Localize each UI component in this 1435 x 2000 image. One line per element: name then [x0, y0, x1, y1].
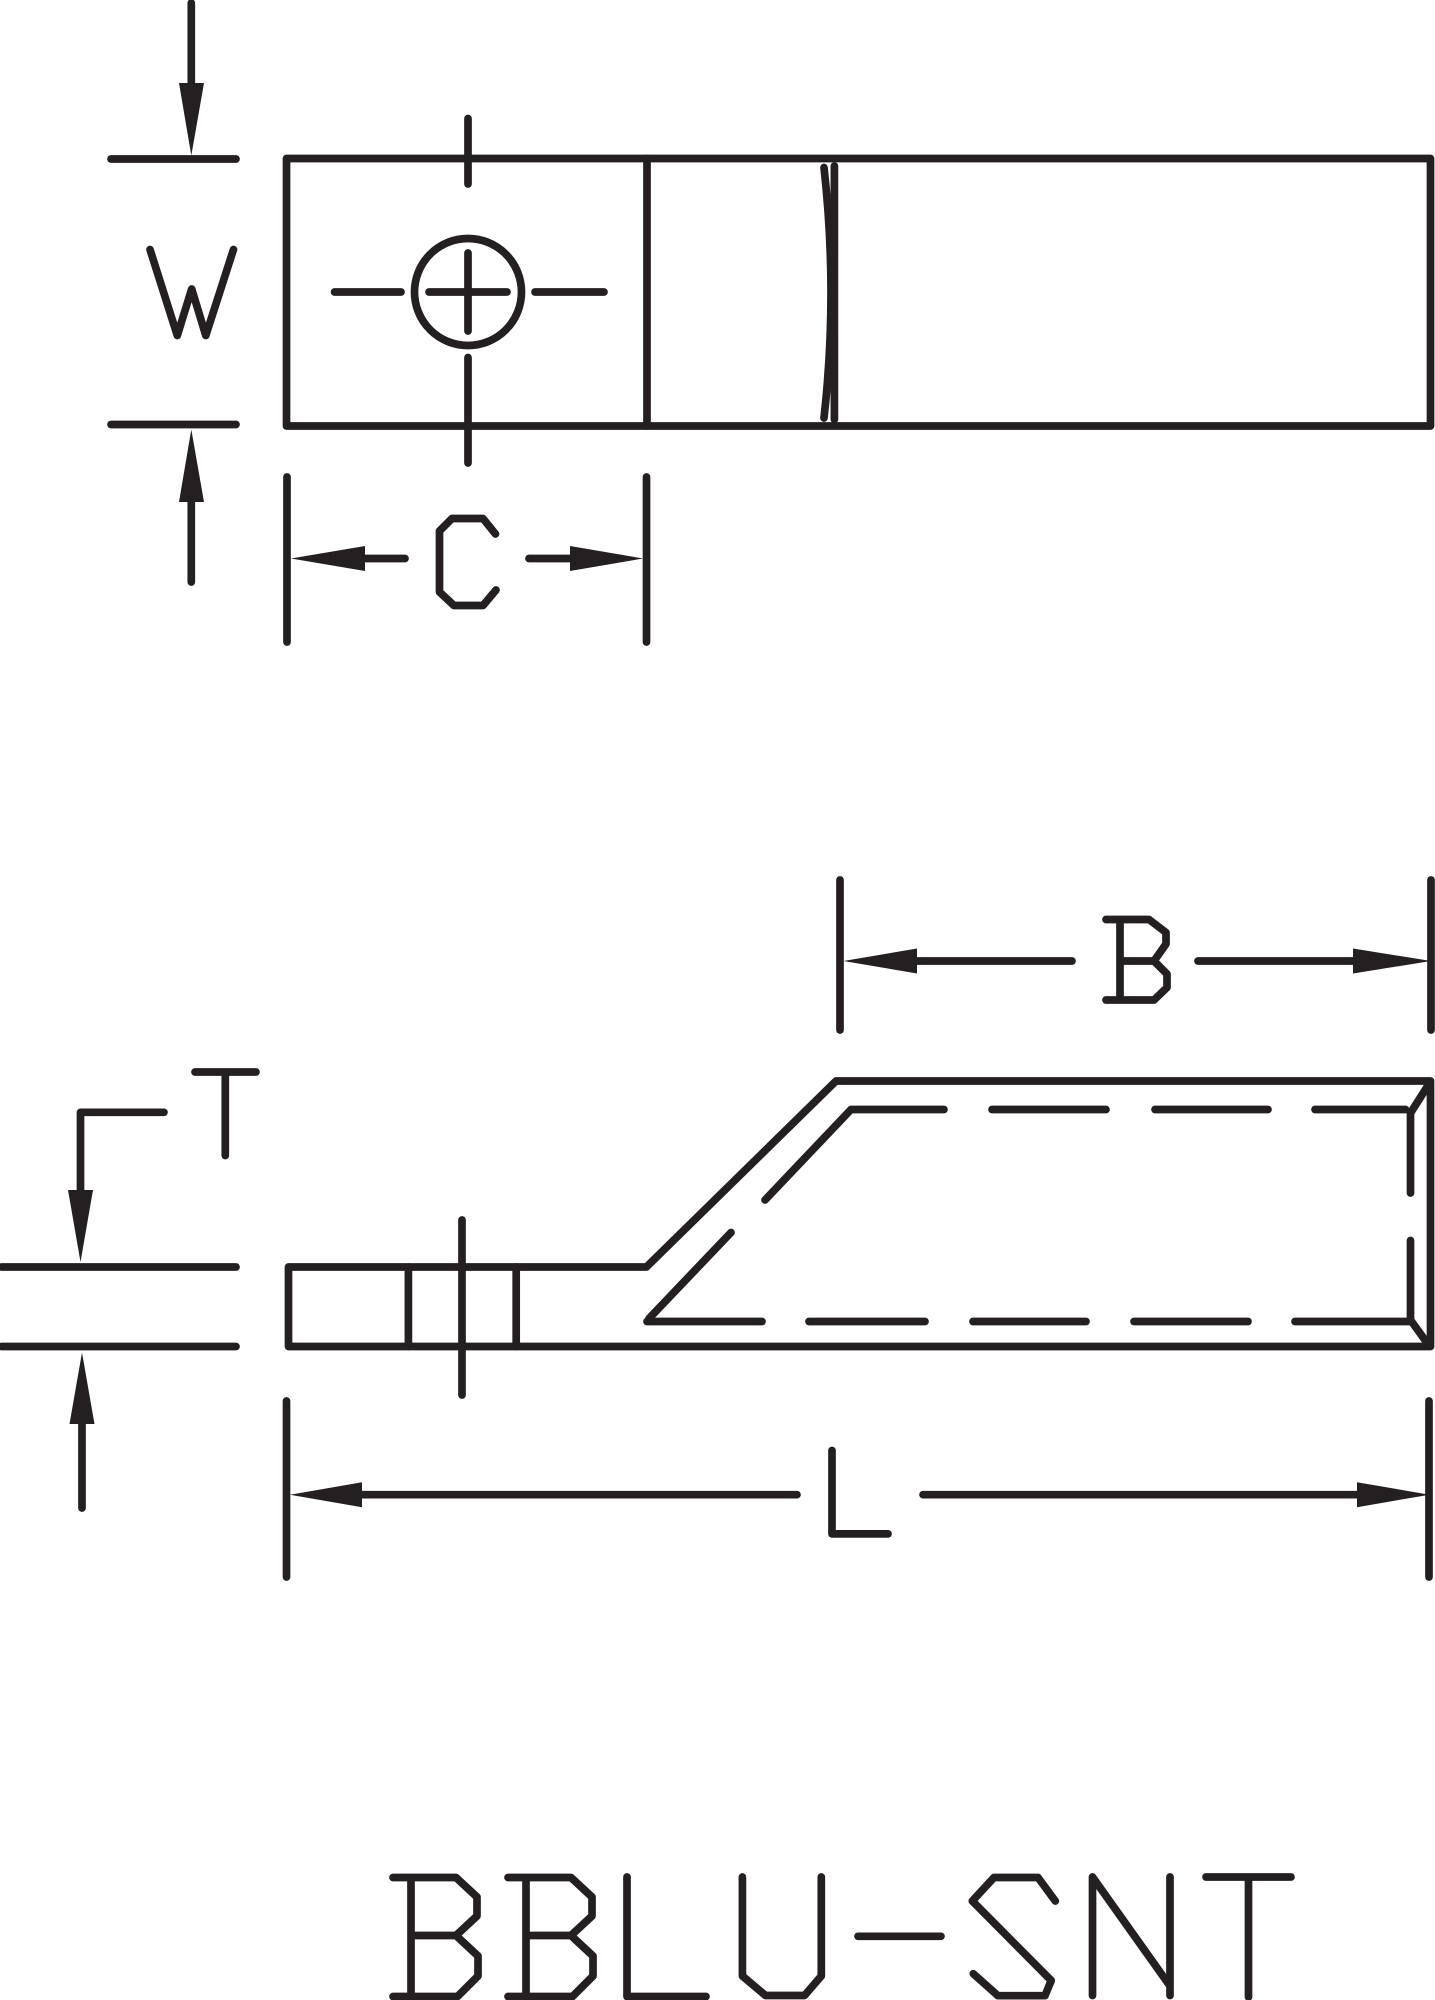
part number text: letter L [627, 1877, 706, 1997]
dimension L: right extension line [1425, 1401, 1433, 1577]
side view: bore hidden top line dash 2 [992, 1106, 1106, 1114]
side view: bore hidden bottom line dash 4 [1134, 1318, 1248, 1326]
side view: bolt hole centerline [458, 1220, 466, 1395]
dimension B: letter B [1106, 920, 1167, 1001]
part number text: letter T [1206, 1877, 1291, 1997]
side view: bore hidden top line dash 4 [1315, 1106, 1406, 1114]
dimension C: right extension line [643, 477, 651, 642]
top view: vertical centerline lower dash [464, 358, 472, 464]
dimension L: left extension line [283, 1401, 291, 1577]
side view: tongue division line 1 [405, 1267, 413, 1347]
top view: vertical centerline upper dash [464, 119, 472, 185]
dimension T: lower extension line [2, 1263, 237, 1271]
side view: lug profile outline [289, 1081, 1431, 1347]
dimension W: upper arrowhead [179, 83, 204, 156]
dimension B: right arrowhead [1353, 949, 1431, 974]
dimension W: lower arrowhead [179, 430, 204, 503]
dimension B: left extension line [836, 880, 844, 1030]
dimension W: lower tick [111, 421, 236, 429]
dimension T: leader arrowhead [68, 1190, 93, 1262]
side view: tongue division line 2 [512, 1267, 520, 1347]
dimension B: left arrowhead [844, 949, 918, 974]
dimension L: right arrowhead [1357, 1482, 1430, 1507]
dimension T: bottom arrow line [78, 1424, 86, 1508]
top view: bolt hole circle [415, 239, 522, 346]
dimension W: lower arrow line [187, 502, 195, 582]
dimension L: left arrow tail [360, 1491, 797, 1499]
dimension T: letter T [195, 1072, 256, 1156]
dimension C: right arrowhead [570, 546, 643, 571]
dimension B: right arrow tail [1198, 957, 1355, 965]
side view: barrel mouth top chamfer [1411, 1086, 1429, 1114]
part number text: letter U [742, 1877, 821, 1996]
dimension L: left arrowhead [290, 1482, 362, 1507]
top view: hole center cross vertical [464, 253, 472, 331]
dimension T: bottom arrowhead [70, 1353, 95, 1425]
part number text: letter N [1093, 1877, 1171, 1996]
side view: bore end hidden vertical dash 1 [1407, 1113, 1415, 1193]
top view: hole center cross horizontal [429, 288, 507, 296]
dimension L: right arrow tail [923, 1491, 1359, 1499]
top view: horizontal centerline left dash [335, 288, 402, 296]
side view: bore hidden bottom line dash 5 [1295, 1318, 1409, 1326]
dimension C: left arrowhead [291, 546, 365, 571]
dimension C: left arrow tail [363, 555, 405, 563]
side view: bore end hidden vertical dash 2 [1407, 1241, 1415, 1321]
part number text: letter S [972, 1878, 1055, 1996]
dimension B: left arrow tail [915, 957, 1072, 965]
part number text: letter B2 [508, 1878, 593, 1997]
dimension C: left extension line [283, 477, 291, 642]
top view: crimp witness straight line [831, 166, 839, 420]
dimension C: letter C [440, 519, 497, 606]
dimension W: upper tick [111, 155, 236, 163]
dimension L: letter L [832, 1451, 888, 1534]
top view: crimp witness arc [824, 168, 831, 419]
side view: bore hidden bottom line dash 2 [809, 1318, 925, 1326]
dimension W: letter W [150, 250, 234, 336]
top view: horizontal centerline right dash [535, 288, 604, 296]
dimension T: lower extension line 2 [2, 1343, 237, 1351]
part number text: hyphen [858, 1932, 941, 1940]
side view: bore hidden line lower diagonal dash [649, 1233, 731, 1319]
top view: lug body outline [287, 159, 1431, 427]
dimension B: right extension line [1427, 880, 1435, 1030]
top view: barrel/tongue divider line [643, 159, 651, 427]
side view: bore hidden top line dash 3 [1155, 1106, 1268, 1114]
side view: bore hidden bottom line dash 3 [973, 1318, 1086, 1326]
side view: barrel mouth bottom chamfer [1411, 1320, 1428, 1344]
side view: bore hidden line upper diagonal corner dash [765, 1110, 944, 1201]
dimension W: upper arrow line [187, 3, 195, 85]
dimension C: right arrow tail [529, 555, 572, 563]
part number text: letter B1 [393, 1878, 478, 1997]
dimension T: leader elbow line [81, 1112, 165, 1190]
side view: bore hidden bottom line dash 1 [647, 1318, 762, 1326]
